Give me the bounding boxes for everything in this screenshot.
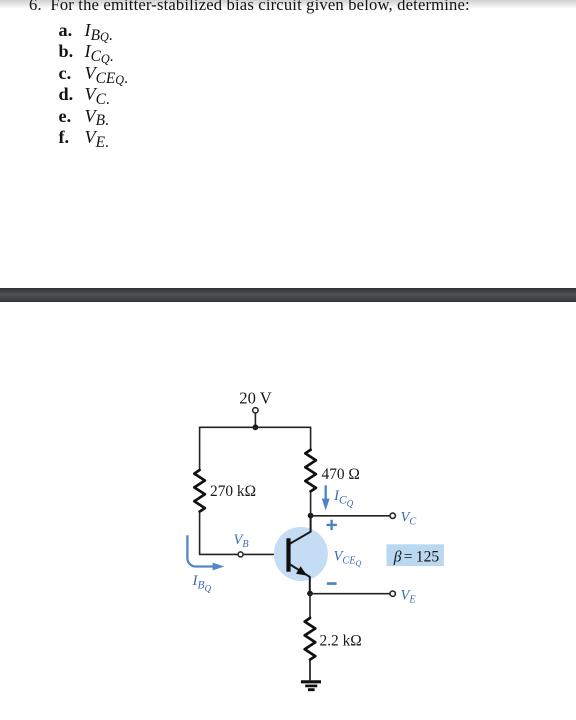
plus sign of VCE (blue) xyxy=(326,520,337,530)
collector node junction xyxy=(308,513,314,519)
faint scan gradient at top xyxy=(0,0,576,9)
wire R2 to collector node xyxy=(310,491,312,515)
wire emitter node to VE terminal xyxy=(310,593,390,595)
svg-text:VE: VE xyxy=(401,588,417,606)
svg-text:β=125: β=125 xyxy=(393,548,440,565)
junction on rail xyxy=(253,424,259,430)
svg-text:2.2 kΩ: 2.2 kΩ xyxy=(320,633,362,650)
resistor RE 2.2 kOhm zigzag xyxy=(305,618,316,660)
node VC terminal circle xyxy=(390,513,395,518)
svg-text:270 kΩ: 270 kΩ xyxy=(210,483,256,500)
wire emitter node to RE xyxy=(309,594,311,619)
question text xyxy=(29,0,470,15)
beta box highlight xyxy=(387,544,444,566)
dark divider band xyxy=(0,288,576,302)
transistor Q1 collector lead xyxy=(290,516,311,544)
node VB terminal circle xyxy=(238,552,243,557)
supply terminal circle xyxy=(253,408,258,413)
svg-text:VCEQ: VCEQ xyxy=(334,549,362,569)
wire RE to ground xyxy=(309,660,311,681)
svg-text:IBQ: IBQ xyxy=(192,573,212,593)
minus sign of VCE (blue) xyxy=(327,582,337,585)
wire rail to R2 xyxy=(310,427,312,450)
wire R1 to base corner xyxy=(200,512,287,555)
svg-text:VB: VB xyxy=(234,532,249,550)
wire supply to rail xyxy=(254,413,256,427)
svg-text:470 Ω: 470 Ω xyxy=(322,466,360,483)
resistor R2 470 Ohm zigzag xyxy=(305,450,316,492)
svg-text:VC: VC xyxy=(401,510,417,528)
resistor R1 270 kOhm zigzag xyxy=(194,470,205,512)
current IB arrow (blue) xyxy=(187,535,214,566)
wire collector node to VC terminal xyxy=(311,515,390,517)
current IC arrow (blue) xyxy=(325,485,327,500)
svg-text:ICQ: ICQ xyxy=(333,488,354,508)
ground symbol xyxy=(301,680,321,683)
transistor Q1 emitter arrowhead xyxy=(296,566,307,575)
transistor Q1 base bar xyxy=(286,538,290,571)
svg-text:20 V: 20 V xyxy=(239,388,271,407)
emitter node junction xyxy=(307,591,313,597)
transistor Q1 body circle xyxy=(274,527,328,581)
node VE terminal circle xyxy=(390,591,395,596)
transistor Q1 emitter lead xyxy=(290,564,310,593)
wire top rail xyxy=(200,426,311,428)
wire rail to R1 xyxy=(199,427,201,470)
